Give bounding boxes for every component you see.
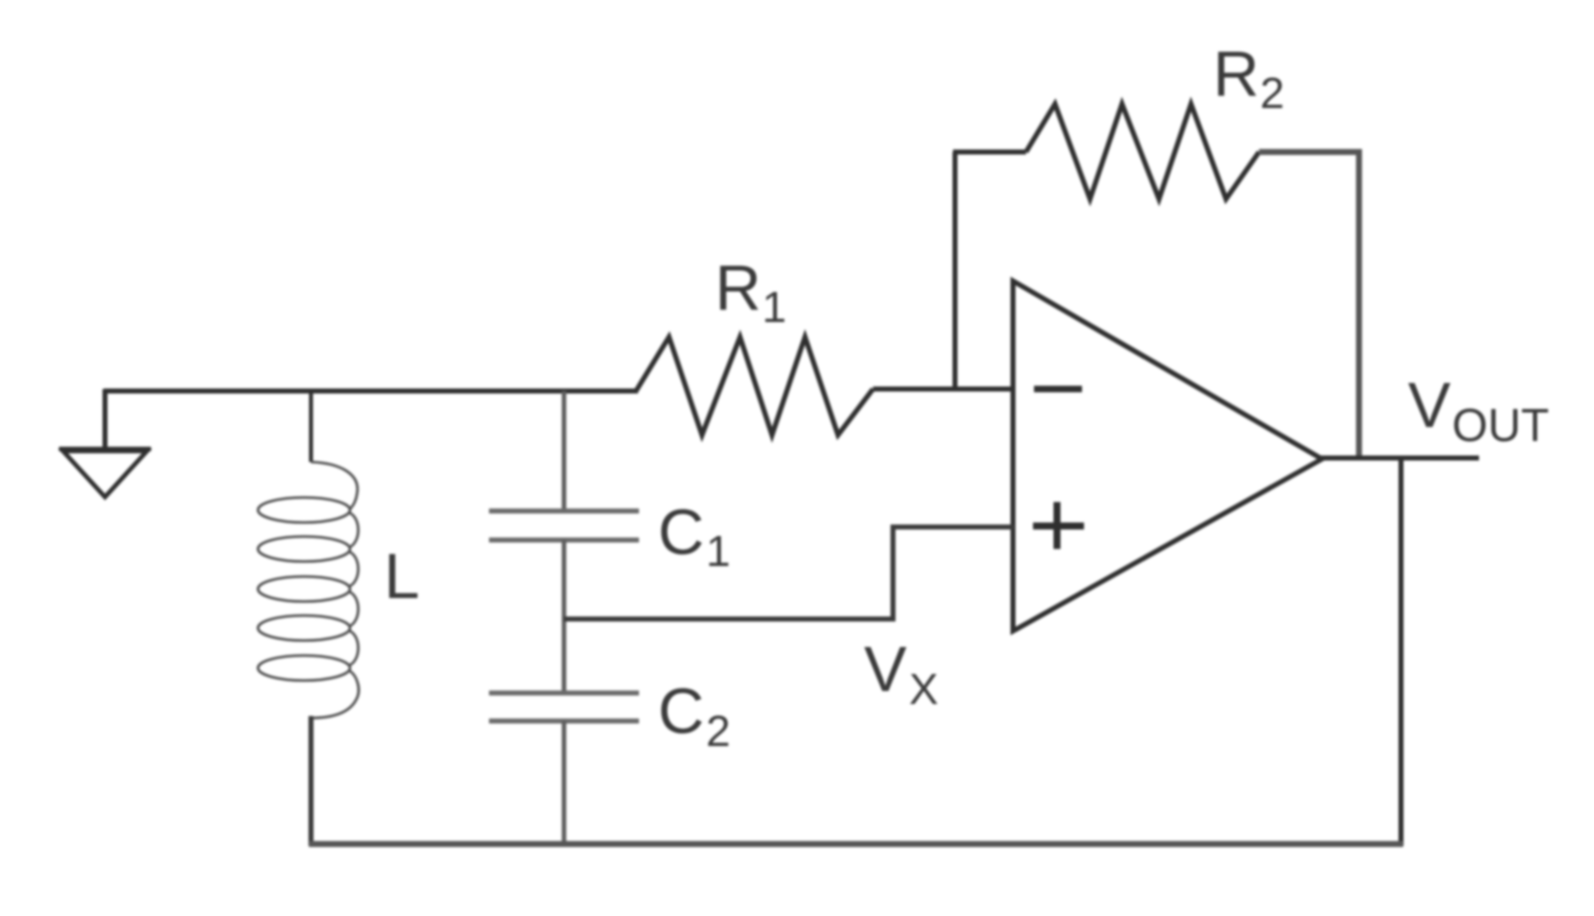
wire: inductor bottom lead: [309, 716, 314, 846]
capacitor C2: [489, 693, 639, 721]
svg-text:C: C: [658, 675, 704, 747]
ground: [59, 449, 151, 497]
wire: bottom rail: [309, 841, 1403, 847]
wire: feedback right vertical: [1356, 149, 1362, 458]
svg-text:1: 1: [762, 283, 786, 332]
op-amp plus input symbol: [1033, 502, 1084, 549]
svg-text:2: 2: [1260, 69, 1284, 118]
wire: op-amp output: [1318, 456, 1479, 461]
svg-text:R: R: [1213, 38, 1259, 110]
wire: inductor top lead: [309, 391, 313, 462]
op-amp U1: [1013, 281, 1322, 631]
wire: R1 to op-amp inverting input: [873, 387, 1015, 392]
resistor R1: [636, 337, 873, 435]
wire: feedback left vertical: [953, 152, 958, 391]
wire: R2 right lead: [1259, 149, 1361, 155]
svg-text:V: V: [864, 633, 907, 705]
op-amp minus input symbol: [1034, 386, 1082, 393]
svg-text:2: 2: [706, 707, 730, 756]
wire: non-inverting input step from Vx node: [564, 527, 1014, 619]
wire: C1-C2 middle lead: [562, 540, 567, 695]
svg-text:OUT: OUT: [1452, 399, 1549, 451]
svg-text:1: 1: [706, 527, 730, 576]
svg-text:L: L: [384, 540, 420, 612]
resistor R2: [1026, 104, 1259, 199]
wire: C2 bottom lead: [562, 721, 567, 846]
svg-text:C: C: [658, 496, 704, 568]
wire: capacitor branch top lead: [562, 391, 567, 513]
wire: R2 left lead: [953, 150, 1026, 155]
wire: top horizontal rail from ground to R1: [104, 389, 638, 394]
svg-text:X: X: [909, 665, 938, 714]
svg-text:V: V: [1408, 369, 1451, 441]
capacitor C1: [489, 511, 639, 540]
wire: ground stub vertical: [103, 389, 108, 449]
inductor L: [258, 462, 359, 718]
svg-text:R: R: [715, 252, 761, 324]
wire: output feedback vertical down: [1399, 458, 1404, 846]
